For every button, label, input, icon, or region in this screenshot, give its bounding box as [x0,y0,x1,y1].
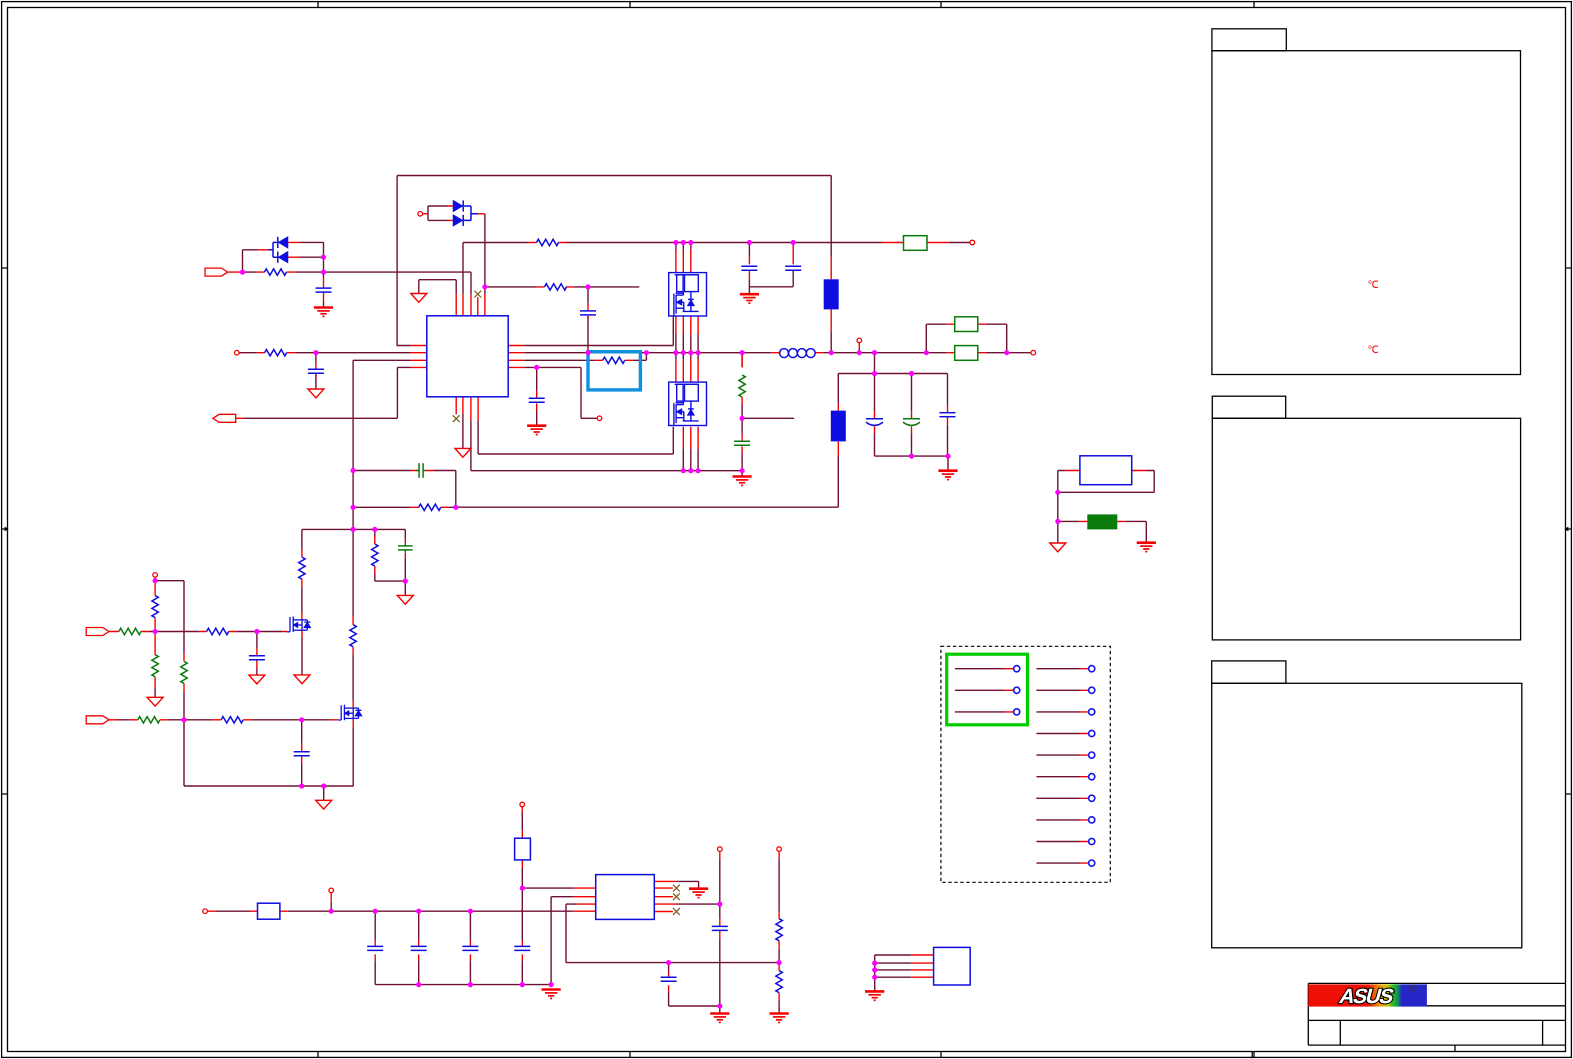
svg-text:℃: ℃ [1368,280,1379,291]
svg-text:ASUS: ASUS [1337,985,1396,1008]
svg-text:℃: ℃ [1368,345,1379,356]
